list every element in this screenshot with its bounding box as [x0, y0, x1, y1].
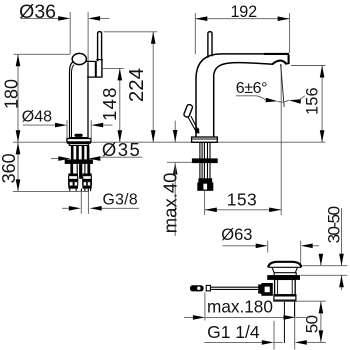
- arrow 192 right: [278, 16, 290, 21]
- arrow Ø48 left: [55, 123, 67, 128]
- dim line 224: [152, 32, 154, 142]
- hose nut cap side view: [199, 179, 212, 183]
- dim line 180: [17, 54, 19, 142]
- hose nut facet row: [68, 182, 78, 186]
- hose center line extension: [204, 190, 206, 215]
- arrow max40 top: [173, 130, 178, 142]
- arrow G1 1/4 right: [295, 340, 307, 345]
- dim line max40 upper: [174, 121, 176, 142]
- hose nut shoulders: [68, 174, 78, 177]
- hose nut dark band: [68, 179, 78, 182]
- angle arc: [278, 100, 289, 102]
- arrow Ø36 right: [88, 16, 100, 21]
- svg-text:6±6°: 6±6°: [236, 80, 267, 97]
- lever stem line 1: [188, 117, 196, 131]
- hose nut upper white band: [68, 176, 70, 179]
- svg-text:156: 156: [303, 87, 321, 115]
- supply shank tube bars front view: [71, 145, 74, 160]
- leader bend Ø35: [99, 157, 102, 158]
- arrow 153 right: [269, 208, 281, 213]
- arrow G3/8 left: [69, 206, 81, 211]
- arrow Ø63 right: [301, 244, 313, 249]
- svg-text:Ø36: Ø36: [19, 1, 56, 23]
- plug collar: [274, 273, 296, 276]
- ext line 180 top: [14, 53, 71, 55]
- stream vertical reference line: [280, 65, 282, 216]
- ext line 30-50 top: [303, 265, 348, 267]
- rod knob: [190, 285, 204, 291]
- svg-text:G3/8: G3/8: [103, 192, 138, 209]
- tailpipe right line: [294, 301, 296, 317]
- ext line G1 1/4 left: [273, 321, 275, 350]
- ext line G3/8 right: [87, 192, 89, 214]
- arrow G1 1/4 left: [262, 340, 274, 345]
- dim line Ø63 right tail: [313, 245, 320, 247]
- svg-text:224: 224: [125, 68, 148, 102]
- nut bottom thick edge: [274, 299, 296, 301]
- ext line 224 top: [104, 31, 158, 33]
- arrow angle right: [289, 99, 301, 104]
- dim line Ø36 left tail: [21, 17, 59, 19]
- svg-text:Ø63: Ø63: [221, 226, 252, 244]
- dim line G1 1/4 right tail: [307, 341, 316, 343]
- ext line 30-50 bottom: [301, 274, 348, 276]
- body left inner edge: [72, 65, 75, 138]
- dim line max180 tail: [184, 316, 193, 318]
- arrow max180 left: [193, 315, 205, 320]
- deck reference line: [13, 141, 326, 143]
- dim line 50: [320, 301, 322, 342]
- pull rod tee block: [261, 283, 272, 296]
- base flange front view: [67, 139, 91, 142]
- svg-text:max.40: max.40: [159, 173, 180, 234]
- arrow 148 top: [118, 68, 123, 80]
- svg-text:180: 180: [2, 79, 22, 109]
- ext line Ø63 right: [300, 241, 302, 266]
- plug neck right: [295, 267, 297, 272]
- locknut washer front view: [65, 160, 92, 164]
- ext line G1 1/4 right: [294, 317, 296, 349]
- arrow Ø36 left: [58, 16, 70, 21]
- arrow 224 top: [151, 32, 156, 44]
- svg-text:360: 360: [0, 153, 19, 183]
- nut feet: [69, 189, 71, 192]
- dim line 153: [205, 209, 281, 211]
- rod collar: [206, 285, 210, 291]
- leader diagonal 6±6°: [257, 96, 267, 100]
- shank tubes side view: [199, 142, 201, 178]
- dim line Ø36 right tail: [100, 17, 110, 19]
- arrow 30-50 top: [339, 254, 344, 266]
- dim line G3/8 right tail: [102, 207, 139, 209]
- svg-text:50: 50: [302, 315, 321, 333]
- ext line Ø36 left: [69, 12, 71, 54]
- hose tubes and threaded rod below washer: [70, 163, 73, 173]
- side lever knob: [183, 104, 193, 118]
- pivot ellipse: [72, 53, 86, 64]
- ext line Ø63 left: [267, 241, 269, 253]
- pivot-to-head link line: [85, 60, 96, 62]
- dim line 360: [17, 142, 19, 191]
- spout tip right thick edge: [288, 54, 290, 64]
- dim line max180: [205, 316, 284, 318]
- body left outer edge: [70, 62, 73, 138]
- ext line max180 left: [204, 292, 206, 320]
- plug neck left: [272, 267, 274, 272]
- lever stem line 2: [191, 116, 198, 130]
- mounting base top bar: [67, 142, 90, 144]
- hose nut bottom band: [68, 186, 78, 189]
- lever stick front view: [98, 32, 102, 62]
- tailpipe left line: [283, 301, 285, 343]
- nut top thick edge: [274, 295, 296, 297]
- arrow 360 bottom: [16, 179, 21, 191]
- stream 6deg line: [281, 64, 285, 107]
- angle arc tail: [300, 96, 305, 99]
- svg-text:148: 148: [99, 86, 120, 120]
- base flange side view: [192, 137, 218, 142]
- arrow 156 top: [320, 66, 325, 78]
- counter reference line bottom of hoses: [13, 190, 89, 192]
- dim line 148: [119, 68, 121, 142]
- ext line G3/8 left: [80, 192, 82, 214]
- spout tip top thick edge: [264, 53, 289, 55]
- svg-text:153: 153: [227, 190, 257, 210]
- stub dim line above: [320, 256, 322, 266]
- spout outline side view: [196, 54, 289, 137]
- hose nut body side view: [198, 183, 213, 191]
- dim line max180 right tail: [296, 316, 311, 318]
- dim line Ø48 left tail: [23, 124, 55, 126]
- arrow 180 bottom: [16, 130, 21, 142]
- svg-text:Ø48: Ø48: [22, 108, 52, 125]
- dim line Ø48 right tail: [103, 124, 113, 126]
- body bottom edge: [69, 137, 88, 139]
- dim line G3/8 left tail: [62, 207, 69, 209]
- arrow 224 bottom: [151, 130, 156, 142]
- ext line Ø36 right: [87, 12, 89, 62]
- dim line 192: [195, 18, 289, 20]
- mounting base box: [69, 143, 88, 145]
- ext line 156 top: [291, 65, 325, 67]
- ext line Ø48 right: [90, 120, 92, 138]
- arrow 153 left: [205, 208, 217, 213]
- flange inner line: [192, 138, 217, 140]
- dim line 156: [321, 66, 323, 143]
- ext line 192 right: [289, 13, 291, 53]
- ext line max40 bottom: [167, 161, 192, 163]
- rod end fitting: [259, 285, 262, 293]
- ext line 50 top: [274, 300, 326, 302]
- joystick stick side view: [208, 32, 212, 58]
- drain plug dome: [268, 262, 301, 267]
- arrow 50 bottom: [319, 330, 324, 342]
- dim line max40 lower: [174, 163, 176, 237]
- arrow G3/8 right: [90, 206, 102, 211]
- arrow 50 top: [319, 301, 324, 313]
- lever stem foot: [195, 129, 199, 133]
- arrow angle left: [266, 98, 278, 103]
- arrow Ø35 right: [88, 156, 100, 161]
- aerator notch: [272, 61, 287, 65]
- arrow 156 bottom: [320, 130, 325, 142]
- waste flange: [268, 276, 300, 280]
- dim line G1 1/4 mid: [274, 341, 283, 343]
- waste body: [275, 279, 296, 294]
- coupling nut: [274, 295, 296, 301]
- arrow 192 left: [195, 16, 207, 21]
- arrow Ø35 left: [58, 156, 70, 161]
- arrow Ø63 left: [256, 244, 268, 249]
- arrow stub down: [319, 254, 324, 266]
- arrow Ø48 right: [91, 123, 103, 128]
- arrow max40 bottom: [173, 163, 178, 175]
- svg-text:30-50: 30-50: [324, 206, 343, 243]
- pull rod top line: [210, 286, 261, 288]
- waste body inner right: [291, 279, 293, 294]
- arrow max180 right: [284, 315, 296, 320]
- dim line 30-50 lower: [341, 275, 343, 290]
- arrow 360 top: [16, 142, 21, 154]
- ext line 192 left: [194, 13, 196, 54]
- head block of cartridge: [95, 61, 97, 77]
- underline Ø35: [101, 156, 143, 158]
- dim line G1 1/4: [204, 341, 262, 343]
- pull rod bottom line: [210, 288, 261, 290]
- arrow 180 top: [16, 54, 21, 66]
- arrow 30-50 bottom: [339, 275, 344, 287]
- body right edge: [87, 62, 89, 138]
- logo mark on body: [75, 134, 82, 136]
- dim line Ø63 left: [223, 245, 256, 247]
- waste body inner left: [277, 279, 279, 294]
- lever collar tick: [96, 59, 103, 61]
- locknut washer side view: [192, 159, 217, 163]
- arrow 148 bottom: [118, 130, 123, 142]
- ext line 148 top: [103, 67, 124, 69]
- leader underline 6±6°: [236, 95, 257, 97]
- dim line shared 50 bottom: [316, 341, 326, 343]
- dome underside line: [268, 266, 301, 268]
- dim line 30-50 upper: [341, 208, 343, 266]
- svg-text:G1 1/4: G1 1/4: [207, 322, 260, 342]
- svg-text:max.180: max.180: [207, 297, 273, 317]
- ext line Ø48 left: [66, 120, 68, 138]
- dim line Ø35 left tail: [51, 158, 59, 160]
